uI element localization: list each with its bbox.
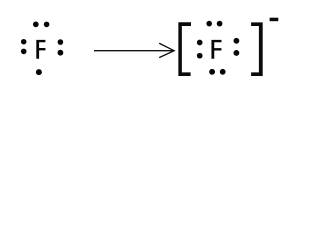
left square bracket of fluoride ion	[178, 22, 191, 76]
reaction arrow head (open V)	[160, 44, 174, 58]
reaction arrow shaft	[94, 50, 174, 52]
superscript minus charge	[270, 18, 279, 22]
lone pair dots: left pair of left F	[21, 39, 27, 54]
lone pair dots: right pair of ion F	[233, 38, 239, 56]
lone pair dots: top pair of left F	[33, 22, 49, 28]
fluorine atom F (left Lewis symbol)	[36, 40, 45, 59]
single electron dot below left F	[36, 69, 42, 75]
lone pair dots: top pair of ion F	[206, 21, 222, 27]
lone pair dots: bottom pair of ion F	[209, 69, 225, 75]
right square bracket of fluoride ion	[251, 22, 263, 76]
lone pair dots: left pair of ion F	[197, 40, 203, 59]
fluoride ion F (inside brackets)	[211, 40, 221, 59]
lone pair dots: right pair of left F	[58, 39, 64, 55]
